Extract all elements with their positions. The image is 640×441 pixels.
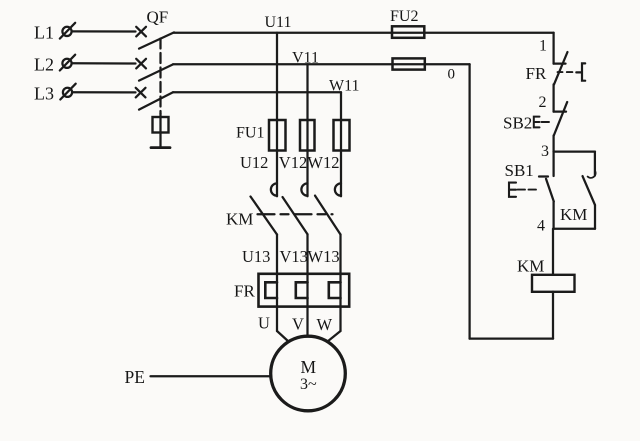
wire PE [151, 375, 271, 377]
pushbutton SB2 NC blade [554, 102, 567, 136]
wire motor phase U [277, 331, 289, 342]
wire V11 drop [306, 64, 308, 151]
svg-text:V: V [292, 315, 304, 334]
svg-text:4: 4 [537, 218, 545, 235]
svg-text:W12: W12 [307, 153, 339, 172]
wire W13 [339, 235, 341, 332]
svg-text:U13: U13 [242, 247, 270, 266]
svg-text:FR: FR [526, 64, 547, 83]
svg-text:PE: PE [125, 367, 145, 387]
contactor KM main hook phase V [301, 183, 307, 195]
wire L1 bus row U11 [174, 32, 554, 34]
fuse FU2 lower [393, 58, 425, 69]
wire control phase drop [552, 33, 554, 64]
svg-text:W13: W13 [308, 247, 340, 266]
svg-text:U: U [258, 314, 270, 333]
contactor KM main hook phase W [335, 183, 341, 195]
svg-text:SB1: SB1 [505, 161, 534, 180]
motor M1 [271, 336, 346, 411]
breaker QF fixed contact pole 2 [136, 59, 146, 69]
relay FR NC contact tick [554, 62, 566, 64]
wire V13 [306, 234, 308, 336]
contactor KM linkage [258, 213, 333, 215]
breaker QF fixed contact pole 1 [136, 27, 146, 37]
svg-text:FR: FR [234, 282, 255, 301]
pushbutton SB2 actuator [534, 117, 540, 128]
svg-text:L2: L2 [34, 55, 54, 75]
svg-text:0: 0 [448, 67, 456, 83]
wire L3 to QF [72, 91, 135, 93]
contactor KM aux blade [583, 176, 596, 205]
wire motor phase W [328, 331, 341, 342]
wire node 4 bar [554, 228, 595, 230]
wire coil to bottom [552, 292, 554, 339]
thermal relay FR heater phase U [265, 282, 277, 298]
svg-text:FU2: FU2 [390, 8, 418, 25]
wire W11 drop [340, 92, 342, 151]
wire bottom return [470, 337, 553, 339]
contactor coil KM [532, 275, 575, 292]
wire neutral 0 rail [468, 64, 470, 338]
pushbutton SB1 NO blade [546, 179, 554, 202]
contactor KM main hook phase U [271, 183, 277, 195]
wire U11 drop [276, 33, 278, 151]
breaker QF operating mechanism [151, 114, 170, 148]
breaker QF fixed contact pole 3 [136, 88, 146, 98]
contactor KM main blade phase V [283, 197, 308, 234]
wire node 3 to SB1 [552, 152, 554, 176]
contactor KM main blade phase U [251, 197, 278, 235]
svg-text:FU1: FU1 [236, 125, 264, 142]
contactor KM main blade phase W [315, 196, 341, 235]
terminal L2 [60, 55, 75, 71]
svg-text:U11: U11 [265, 14, 292, 31]
svg-text:KM: KM [226, 210, 253, 229]
svg-text:3~: 3~ [300, 376, 317, 393]
relay FR trip linkage dash-dot [558, 71, 573, 73]
pushbutton SB2 NC tick [554, 110, 566, 112]
relay FR trip actuator [576, 63, 585, 80]
contactor KM aux hook [588, 171, 596, 178]
pushbutton SB2 linkage dash [542, 121, 550, 123]
svg-text:V11: V11 [292, 50, 319, 67]
wire U12 [276, 151, 278, 197]
svg-text:SB2: SB2 [503, 114, 532, 133]
wire node 1 to 2 [552, 84, 554, 111]
wire SB1 to node 4 [552, 202, 554, 229]
pushbutton SB1 NO tick [539, 175, 548, 177]
wire L3 bus row W11 [173, 91, 341, 93]
relay FR NC contact blade [554, 52, 568, 84]
thermal relay FR box [259, 274, 350, 307]
fuse FU1 phase U [269, 120, 286, 151]
pushbutton SB1 linkage dash [518, 189, 537, 191]
terminal L1 [60, 23, 75, 39]
svg-text:KM: KM [560, 205, 587, 224]
breaker QF blade pole 2 [139, 64, 173, 80]
svg-text:QF: QF [147, 8, 169, 27]
fuse FU1 phase W [334, 120, 350, 151]
svg-text:V13: V13 [280, 247, 308, 266]
wire L2 to QF [72, 62, 136, 64]
fuse FU2 upper [392, 26, 424, 38]
contactor KM aux branch top wire [594, 152, 596, 176]
wire V12 [306, 151, 308, 197]
wire U13 [276, 235, 278, 332]
wire L2 bus row V11 [173, 63, 470, 65]
thermal relay FR heater phase W [329, 282, 341, 298]
wire L1 to QF [72, 30, 136, 32]
svg-text:W: W [317, 315, 333, 334]
wire node 3 branch [554, 150, 595, 152]
terminal L3 [60, 84, 75, 100]
breaker QF linkage [159, 39, 161, 115]
wire node 4 to coil [552, 229, 554, 275]
svg-text:KM: KM [517, 257, 544, 276]
wire W12 [340, 151, 342, 197]
fuse FU1 phase V [300, 120, 315, 151]
svg-text:2: 2 [539, 94, 547, 111]
svg-text:V12: V12 [279, 153, 307, 172]
contactor KM aux bottom wire [594, 205, 596, 229]
svg-text:1: 1 [539, 38, 547, 55]
breaker QF blade pole 3 [139, 92, 173, 109]
svg-text:L1: L1 [34, 23, 54, 43]
svg-text:W11: W11 [329, 78, 360, 95]
thermal relay FR heater phase V [296, 282, 308, 298]
svg-text:L3: L3 [34, 84, 54, 104]
breaker QF blade pole 1 [139, 32, 174, 48]
svg-text:M: M [301, 357, 317, 377]
pushbutton SB1 actuator [509, 183, 516, 197]
wire node 2 to 3 [552, 136, 554, 152]
svg-text:U12: U12 [240, 153, 268, 172]
svg-text:3: 3 [541, 143, 549, 160]
